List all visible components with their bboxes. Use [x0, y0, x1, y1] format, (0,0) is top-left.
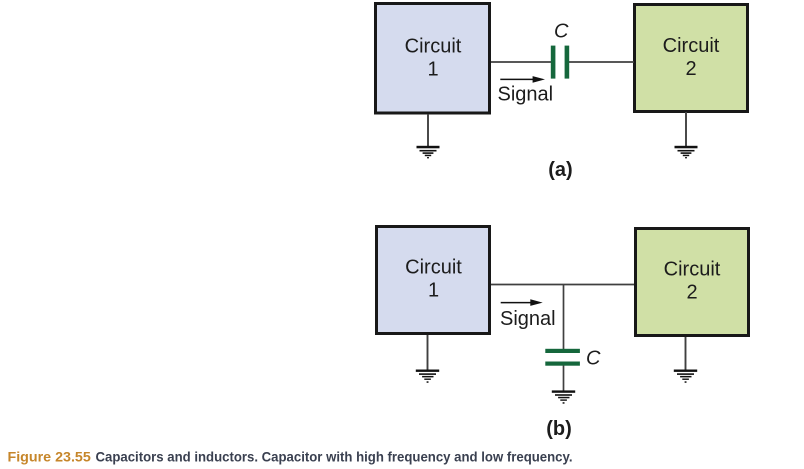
- ground (Circuit 1 a): [417, 146, 440, 159]
- box Circuit 2 (b): [636, 229, 749, 336]
- ground (Circuit 2 b): [674, 370, 697, 383]
- wire ground stub Circuit 1 (a): [427, 114, 429, 147]
- wire ground stub Circuit 2 (a): [685, 112, 687, 147]
- svg-text:2: 2: [685, 58, 696, 80]
- wire ground stub Circuit 1 (b): [427, 335, 429, 370]
- capacitor C (a) series plates: [551, 46, 569, 79]
- svg-text:1: 1: [427, 59, 438, 81]
- svg-text:Circuit: Circuit: [663, 35, 720, 57]
- svg-text:Capacitors and inductors. Capa: Capacitors and inductors. Capacitor with…: [96, 448, 573, 464]
- svg-text:(a): (a): [548, 159, 572, 181]
- svg-text:C: C: [586, 348, 601, 370]
- svg-text:Circuit: Circuit: [405, 36, 462, 58]
- svg-text:Signal: Signal: [498, 84, 554, 106]
- box Circuit 1 (a): [376, 4, 490, 114]
- svg-text:C: C: [554, 21, 569, 43]
- wire from capacitor C (b) to ground: [563, 366, 565, 392]
- svg-text:1: 1: [428, 280, 439, 302]
- wire from Circuit 1 (b) to Circuit 2 (b): [491, 284, 634, 286]
- wire from capacitor C to Circuit 2 (a): [569, 61, 634, 63]
- svg-text:Figure 23.55: Figure 23.55: [8, 448, 92, 464]
- wire ground stub Circuit 2 (b): [685, 337, 687, 370]
- svg-text:Signal: Signal: [500, 308, 556, 330]
- ground (capacitor b): [552, 390, 575, 403]
- capacitor C (b) shunt plates: [545, 349, 580, 366]
- wire from Circuit 1 (a) to capacitor C: [491, 61, 551, 63]
- svg-text:Circuit: Circuit: [664, 259, 721, 281]
- ground (Circuit 2 a): [675, 146, 698, 159]
- signal arrow (b): [501, 299, 543, 306]
- svg-text:(b): (b): [546, 418, 572, 440]
- svg-text:Circuit: Circuit: [405, 257, 462, 279]
- wire junction down to shunt capacitor: [563, 285, 565, 350]
- signal arrow (a): [500, 76, 545, 83]
- svg-text:2: 2: [686, 282, 697, 304]
- figure caption: [8, 448, 573, 464]
- box Circuit 1 (b): [377, 227, 490, 334]
- ground (Circuit 1 b): [416, 370, 439, 383]
- box Circuit 2 (a): [635, 5, 748, 112]
